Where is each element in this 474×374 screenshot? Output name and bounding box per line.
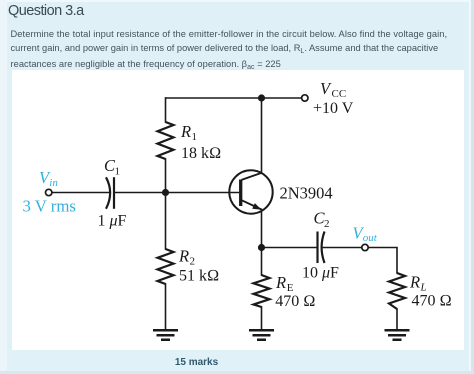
svg-text:L: L [420,281,427,293]
svg-text:R: R [409,273,420,292]
svg-text:+10 V: +10 V [313,100,354,117]
svg-text:R: R [180,122,191,141]
svg-text:R: R [178,247,189,266]
svg-text:18 kΩ: 18 kΩ [181,145,221,162]
svg-text:2: 2 [324,218,330,230]
svg-text:1: 1 [115,166,121,178]
svg-text:470 Ω: 470 Ω [275,293,315,310]
svg-text:out: out [363,232,378,244]
svg-text:V: V [320,79,332,98]
svg-text:1: 1 [192,131,198,143]
svg-text:10 μF: 10 μF [302,265,339,282]
svg-text:470 Ω: 470 Ω [412,293,452,310]
svg-text:1 μF: 1 μF [98,212,127,229]
svg-text:51 kΩ: 51 kΩ [179,268,219,285]
svg-text:2N3904: 2N3904 [280,184,333,203]
svg-text:R: R [275,273,286,292]
svg-text:in: in [49,177,58,189]
svg-text:3 V rms: 3 V rms [23,196,76,215]
svg-text:CC: CC [332,88,347,100]
svg-text:2: 2 [190,256,196,268]
